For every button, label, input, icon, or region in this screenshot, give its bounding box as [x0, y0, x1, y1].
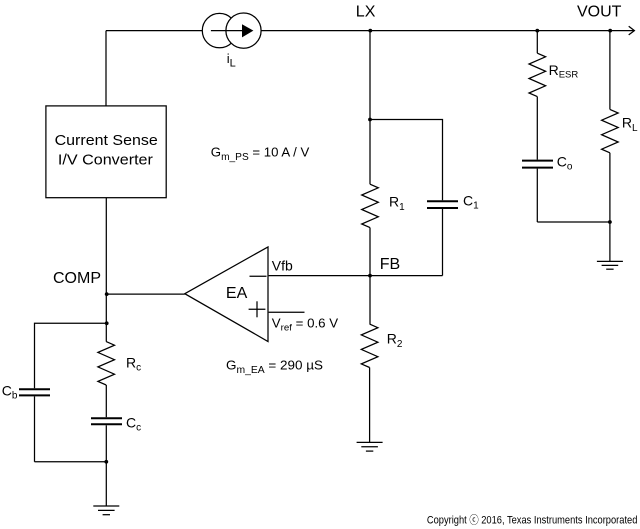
- wire FB horizontal (EA minus input to C1): [269, 275, 443, 277]
- svg-text:Current Sense: Current Sense: [55, 133, 158, 149]
- wire to ground (right): [609, 222, 611, 261]
- wire RESR bottom to Co: [536, 97, 538, 160]
- wire branch to C1 top: [370, 120, 443, 201]
- wire R2 bottom lead: [369, 368, 371, 443]
- ground (bottom left): [93, 506, 119, 515]
- minus sign: [250, 275, 267, 277]
- svg-text:FB: FB: [380, 256, 400, 273]
- wire R1 bottom lead: [369, 228, 371, 276]
- wire current source to VOUT arrow: [261, 30, 634, 32]
- node bottom-left dot: [104, 460, 108, 464]
- capacitor Co: [522, 161, 553, 168]
- capacitor Cb: [19, 389, 50, 395]
- svg-text:VOUT: VOUT: [577, 3, 622, 20]
- VOUT arrow head: [629, 26, 635, 35]
- resistor RESR: [529, 53, 546, 96]
- ground (below R2): [357, 442, 383, 451]
- wire LX vertical down: [369, 31, 371, 120]
- wire RESR top lead: [536, 31, 538, 54]
- node VOUT dot: [608, 29, 612, 33]
- op-amp EA: [185, 247, 268, 342]
- svg-text:I/V Converter: I/V Converter: [58, 152, 153, 168]
- node Cb branch dot: [105, 321, 109, 325]
- wire bottom-left horizontal: [35, 461, 107, 463]
- wire RL bottom lead: [609, 153, 611, 222]
- Current Sense I/V Converter box U1: [46, 106, 166, 198]
- resistor RL: [602, 109, 619, 152]
- capacitor C1: [427, 201, 458, 208]
- wire Co bottom lead: [536, 169, 538, 222]
- svg-text:COMP: COMP: [53, 270, 101, 287]
- node R1/C1 branch dot: [368, 118, 372, 122]
- wire top-left horizontal: [106, 30, 203, 32]
- resistor Rc: [98, 342, 115, 385]
- wire Cb bottom lead: [34, 396, 36, 461]
- wire Cc bottom lead: [105, 425, 107, 506]
- svg-text:LX: LX: [356, 4, 376, 21]
- node bottom-right dot: [608, 220, 612, 224]
- wire Rc bottom to Cc: [105, 385, 107, 417]
- wire converter box bottom vertical: [105, 198, 107, 342]
- wire RL top lead: [609, 31, 611, 110]
- node COMP dot: [105, 292, 109, 296]
- current source iL: [202, 13, 261, 48]
- resistor R1: [362, 184, 379, 227]
- ground (right): [597, 261, 623, 269]
- svg-text:Copyright ⓒ 2016, Texas Instru: Copyright ⓒ 2016, Texas Instruments Inco…: [427, 513, 638, 526]
- svg-text:EA: EA: [226, 285, 248, 302]
- wire C1 bottom lead: [442, 209, 444, 276]
- resistor R2: [361, 324, 378, 367]
- node FB dot: [368, 274, 372, 278]
- plus sign: [249, 308, 266, 310]
- node RESR-top dot: [535, 29, 539, 33]
- capacitor Cc: [91, 418, 122, 424]
- wire Cb branch (left and down): [35, 323, 107, 388]
- wire COMP to EA apex: [106, 293, 185, 295]
- wire plus input stub (Vref overline): [269, 311, 305, 313]
- svg-text:Vfb: Vfb: [272, 257, 293, 273]
- wire R2 top lead: [369, 276, 371, 325]
- wire bottom-right horizontal: [537, 221, 610, 223]
- wire R1 top lead: [369, 120, 371, 185]
- node LX dot: [368, 29, 372, 33]
- wire left vertical to converter box: [105, 31, 107, 106]
